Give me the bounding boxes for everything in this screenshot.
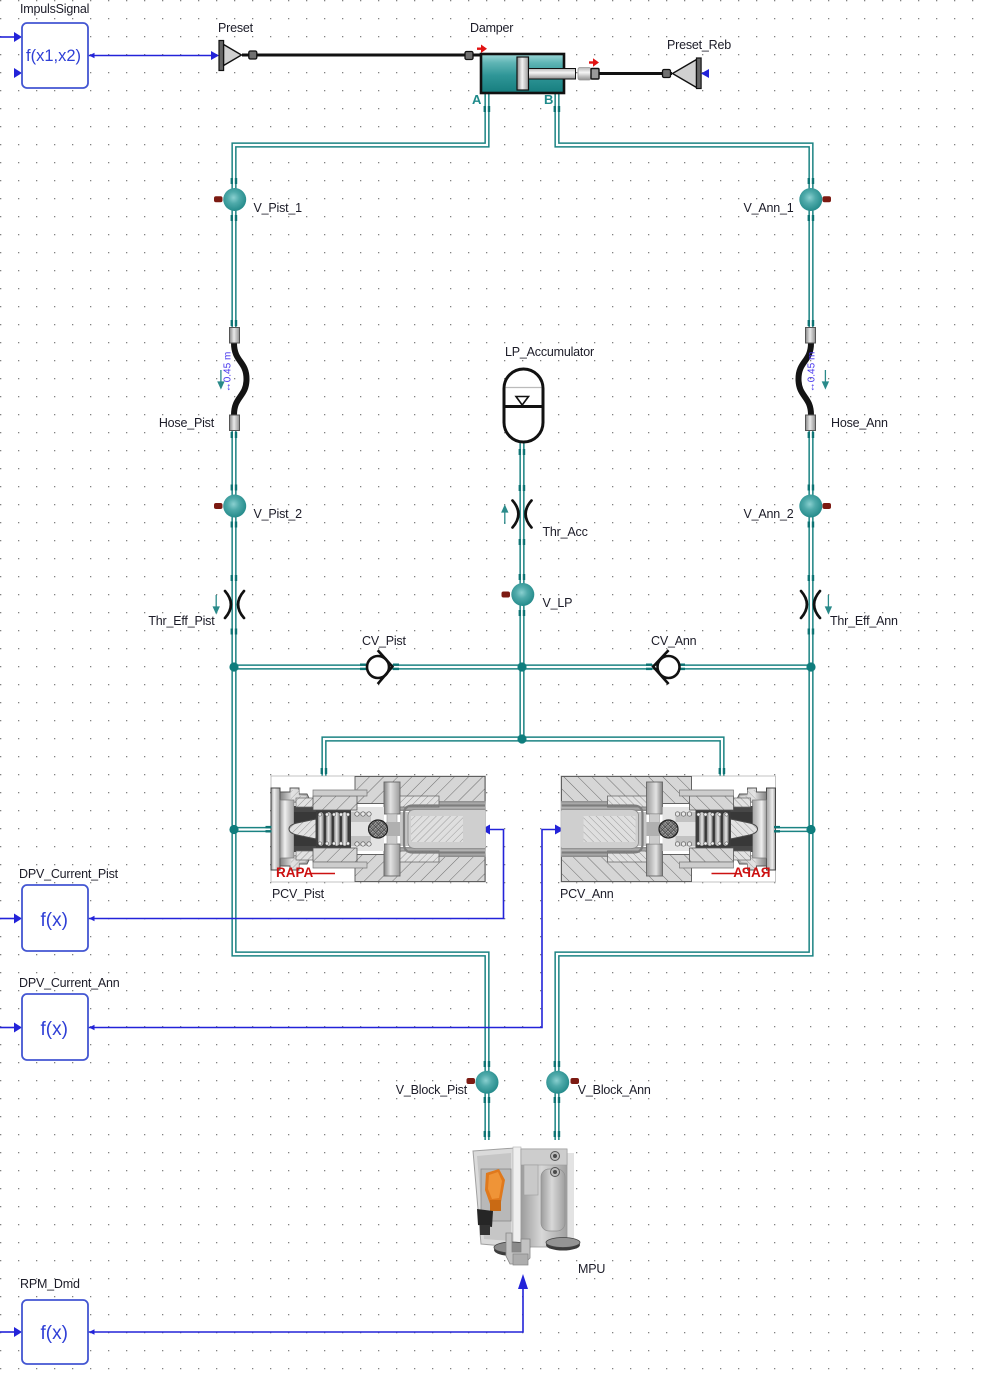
push ball	[386, 822, 400, 836]
wire: lower manifold to PCV top ports	[324, 739, 722, 776]
junction node at (234,829.5)	[229, 825, 238, 834]
wire: damper port A down and left to left column	[234, 93, 487, 1140]
input port arrow ImpulsSignal top	[14, 32, 22, 42]
input port arrow DPV_Current_Ann	[14, 1023, 22, 1033]
seat fork	[384, 782, 400, 814]
orange connector	[485, 1169, 505, 1204]
svg-text:RAPA: RAPA	[276, 865, 314, 880]
check valve CV_Ann	[646, 634, 697, 684]
upper / lower hatched strips over spring	[313, 796, 357, 810]
valve V_Pist_2	[214, 485, 302, 528]
input port arrow RPM_Dmd	[14, 1327, 22, 1337]
base feet	[494, 1244, 530, 1256]
svg-text:V_Pist_2: V_Pist_2	[254, 507, 303, 521]
svg-text:DPV_Current_Ann: DPV_Current_Ann	[19, 976, 120, 990]
svg-text:Thr_Eff_Pist: Thr_Eff_Pist	[148, 614, 215, 628]
block DPV_Current_Pist	[19, 867, 119, 951]
right body slabs	[355, 777, 485, 804]
connector marks at PCV side ports	[266, 826, 781, 833]
gap filler	[351, 807, 384, 851]
svg-text:Damper: Damper	[470, 21, 513, 35]
throttle Thr_Eff_Ann	[801, 575, 898, 635]
Damper cylinder	[470, 21, 599, 107]
shadow halo	[555, 1153, 574, 1245]
connector mark below port B	[554, 106, 561, 112]
wire: center column accumulator to junction	[519, 442, 524, 739]
connector marks at PCV top ports	[321, 768, 726, 774]
junction node at (522,667)	[517, 662, 526, 671]
svg-text:CV_Pist: CV_Pist	[362, 634, 406, 648]
junction node at (522,739)	[517, 734, 526, 743]
connector square at damper left	[465, 52, 473, 60]
svg-text:Thr_Eff_Ann: Thr_Eff_Ann	[830, 614, 898, 628]
svg-text:f(x): f(x)	[41, 1323, 68, 1344]
svg-text:A: A	[472, 92, 482, 107]
input port arrow ImpulsSignal bottom	[14, 68, 22, 78]
accumulator LP_Accumulator	[504, 345, 594, 455]
svg-text:Thr_Acc: Thr_Acc	[543, 525, 588, 539]
block RPM_Dmd	[20, 1277, 88, 1364]
wire: PCV_Ann right port	[776, 827, 812, 832]
small spring zigzag	[355, 812, 371, 846]
left housing panel	[473, 1148, 515, 1247]
signal wire ImpulsSignal to Preset	[0, 37, 213, 56]
Preset_Reb (right exciter)	[667, 38, 731, 89]
valve V_Pist_1	[214, 178, 302, 221]
block ImpulsSignal	[20, 2, 89, 88]
junction node at (811,829.5)	[806, 825, 815, 834]
wire: PCV_Pist left port	[234, 827, 271, 832]
output marker DPV_Current_Pist	[89, 916, 95, 921]
right cylinder	[521, 1149, 567, 1247]
svg-text:V_Ann_2: V_Ann_2	[743, 507, 793, 521]
spring block	[316, 810, 351, 848]
svg-text:f(x): f(x)	[41, 1019, 68, 1040]
wire: damper port B down and right to right column	[557, 93, 811, 1140]
svg-text:Preset_Reb: Preset_Reb	[667, 38, 731, 52]
red arrow above damper left	[477, 45, 487, 54]
svg-text:↔0.45 m: ↔0.45 m	[807, 352, 818, 393]
signal wire DPV_Current_Ann to PCV_Ann	[0, 830, 556, 1028]
left plug	[271, 788, 280, 870]
arrow into PCV_Pist	[481, 825, 490, 835]
output marker ImpulsSignal	[89, 53, 95, 58]
throttle Thr_Eff_Pist	[148, 575, 244, 635]
block DPV_Current_Ann	[19, 976, 120, 1060]
signal wire DPV_Current_Pist to PCV_Pist	[0, 830, 504, 919]
hose Hose_Pist	[159, 320, 247, 438]
arrow into MPU	[518, 1274, 528, 1289]
valve V_Block_Ann	[546, 1061, 651, 1103]
output marker DPV_Current_Ann	[89, 1025, 95, 1030]
rod link to Preset_Reb	[599, 72, 672, 75]
svg-text:PCV_Ann: PCV_Ann	[560, 887, 614, 901]
connector square on rod link	[663, 70, 671, 78]
junction node at (234,667)	[229, 662, 238, 671]
svg-text:PCV_Pist: PCV_Pist	[272, 887, 325, 901]
svg-text:CV_Ann: CV_Ann	[651, 634, 697, 648]
check valve CV_Pist	[360, 634, 406, 684]
arrow into Preset	[211, 51, 219, 60]
cavity	[294, 806, 316, 852]
black connector	[477, 1209, 493, 1227]
junction node at (811,667)	[806, 662, 815, 671]
center bracket	[506, 1233, 530, 1264]
wire: main horizontal manifold	[234, 664, 811, 669]
connector marks at MPU top ports	[484, 1131, 561, 1137]
Preset (left exciter)	[218, 21, 481, 71]
center divider	[513, 1147, 521, 1249]
connector mark below port A	[484, 106, 491, 112]
MPU motor pump unit image	[473, 1147, 580, 1265]
svg-text:Preset: Preset	[218, 21, 254, 35]
svg-text:RPM_Dmd: RPM_Dmd	[20, 1277, 80, 1291]
signal wire RPM_Dmd to MPU	[0, 1288, 523, 1332]
svg-text:↔0.45 m: ↔0.45 m	[223, 352, 234, 393]
armature sleeve	[404, 806, 485, 853]
svg-text:ImpulsSignal: ImpulsSignal	[20, 2, 89, 16]
valve V_Ann_2	[743, 485, 831, 528]
hatched collars	[296, 798, 316, 807]
valve V_Ann_1	[743, 178, 831, 221]
input port arrow DPV_Current_Pist	[14, 914, 22, 924]
valve V_LP	[502, 583, 573, 616]
hose Hose_Ann	[799, 320, 889, 438]
svg-text:V_Ann_1: V_Ann_1	[743, 201, 793, 215]
valve V_Block_Pist	[396, 1061, 499, 1103]
svg-text:MPU: MPU	[578, 1262, 605, 1276]
red arrow above damper rod	[589, 58, 599, 66]
svg-text:LP_Accumulator: LP_Accumulator	[505, 345, 594, 359]
svg-text:DPV_Current_Pist: DPV_Current_Pist	[19, 867, 119, 881]
svg-text:f(x1,x2): f(x1,x2)	[26, 47, 81, 65]
svg-text:V_Block_Ann: V_Block_Ann	[578, 1083, 651, 1097]
svg-text:Hose_Pist: Hose_Pist	[159, 416, 215, 430]
bolt holes	[551, 1152, 560, 1161]
svg-text:V_Pist_1: V_Pist_1	[254, 201, 303, 215]
throttle Thr_Acc	[502, 485, 588, 580]
svg-text:V_LP: V_LP	[543, 596, 573, 610]
PCV_Ann proportional valve image (mirrored)	[561, 776, 776, 882]
arrow into PCV_Ann	[555, 825, 564, 835]
svg-text:Hose_Ann: Hose_Ann	[831, 416, 888, 430]
poppet cone	[289, 819, 316, 839]
output marker RPM_Dmd	[89, 1329, 95, 1334]
svg-text:f(x): f(x)	[41, 910, 68, 931]
PCV_Pist proportional valve image	[271, 776, 486, 882]
svg-text:B: B	[544, 92, 553, 107]
svg-text:V_Block_Pist: V_Block_Pist	[396, 1083, 468, 1097]
